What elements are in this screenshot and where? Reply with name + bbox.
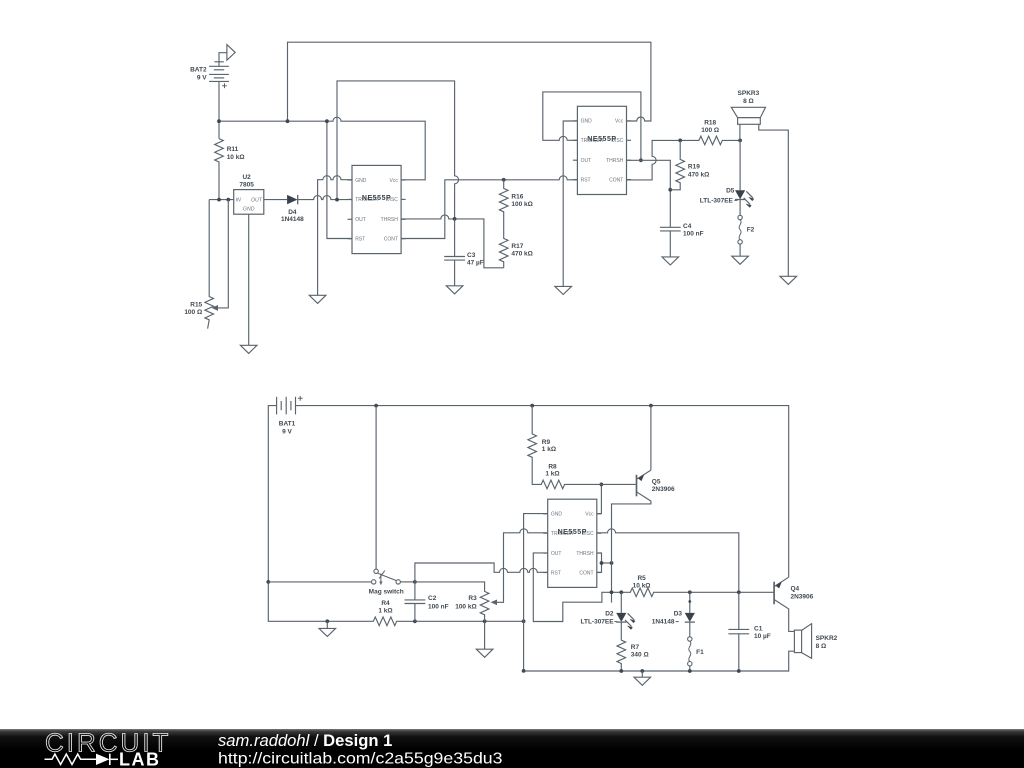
- svg-text:1 kΩ: 1 kΩ: [545, 471, 559, 478]
- svg-text:R18: R18: [704, 120, 716, 127]
- svg-text:R4: R4: [381, 600, 390, 607]
- svg-text:7805: 7805: [239, 181, 254, 188]
- svg-text:8 Ω: 8 Ω: [743, 98, 754, 105]
- svg-text:100 nF: 100 nF: [428, 604, 449, 611]
- svg-text:100 Ω: 100 Ω: [184, 309, 202, 316]
- svg-text:100 Ω: 100 Ω: [701, 127, 719, 134]
- svg-text:SPKR3: SPKR3: [738, 90, 760, 97]
- svg-text:R19: R19: [688, 164, 700, 171]
- svg-text:100 kΩ: 100 kΩ: [511, 201, 532, 208]
- svg-text:D5: D5: [726, 188, 735, 195]
- svg-text:1N4148: 1N4148: [652, 618, 675, 625]
- svg-text:NE555P: NE555P: [587, 136, 616, 143]
- svg-text:U2: U2: [242, 174, 251, 181]
- svg-text:9 V: 9 V: [282, 428, 292, 435]
- svg-text:C4: C4: [683, 223, 692, 230]
- svg-text:470 kΩ: 470 kΩ: [688, 171, 709, 178]
- svg-text:D2: D2: [605, 611, 614, 618]
- svg-text:100 kΩ: 100 kΩ: [455, 604, 476, 611]
- svg-text:C2: C2: [428, 595, 437, 602]
- svg-text:C1: C1: [754, 626, 763, 633]
- svg-text:http://circuitlab.com/c2a55g9e: http://circuitlab.com/c2a55g9e35du3: [218, 751, 503, 768]
- svg-text:470 kΩ: 470 kΩ: [511, 251, 532, 258]
- svg-text:CONT: CONT: [384, 237, 398, 243]
- svg-text:Vcc: Vcc: [615, 119, 624, 125]
- svg-text:GND: GND: [551, 512, 563, 518]
- svg-text:R16: R16: [511, 193, 523, 200]
- svg-text:9 V: 9 V: [197, 74, 207, 81]
- svg-text:F1: F1: [696, 649, 704, 656]
- svg-text:D4: D4: [288, 209, 297, 216]
- svg-text:THRSH: THRSH: [606, 158, 624, 164]
- svg-text:47 µF: 47 µF: [467, 260, 484, 267]
- svg-text:sam.raddohl / Design 1: sam.raddohl / Design 1: [218, 731, 392, 750]
- svg-text:NE555P: NE555P: [558, 529, 587, 536]
- svg-text:SPKR2: SPKR2: [816, 635, 838, 642]
- svg-text:RST: RST: [551, 570, 561, 576]
- svg-text:1 kΩ: 1 kΩ: [378, 608, 392, 615]
- svg-text:Q5: Q5: [652, 479, 661, 486]
- svg-text:Vcc: Vcc: [390, 178, 399, 184]
- svg-text:1 kΩ: 1 kΩ: [542, 446, 556, 453]
- svg-text:1N4148: 1N4148: [281, 216, 304, 223]
- svg-text:CONT: CONT: [579, 570, 593, 576]
- svg-text:10 µF: 10 µF: [754, 633, 771, 640]
- svg-text:10 kΩ: 10 kΩ: [227, 154, 245, 161]
- svg-text:GND: GND: [243, 207, 255, 213]
- svg-text:2N3906: 2N3906: [652, 486, 675, 493]
- svg-text:OUT: OUT: [551, 551, 562, 557]
- svg-text:THRSH: THRSH: [576, 551, 594, 557]
- svg-text:Mag switch: Mag switch: [369, 589, 404, 596]
- svg-text:LAB: LAB: [119, 750, 161, 768]
- svg-text:OUT: OUT: [251, 197, 263, 203]
- svg-text:GND: GND: [581, 119, 593, 125]
- svg-text:R11: R11: [227, 146, 239, 153]
- svg-text:R3: R3: [468, 595, 477, 602]
- svg-text:NE555P: NE555P: [362, 195, 391, 202]
- svg-text:LTL-307EE: LTL-307EE: [700, 198, 734, 205]
- svg-text:Vcc: Vcc: [585, 512, 594, 518]
- svg-text:F2: F2: [747, 226, 755, 233]
- svg-text:340 Ω: 340 Ω: [631, 651, 649, 658]
- svg-text:2N3906: 2N3906: [791, 594, 814, 601]
- svg-text:100 nF: 100 nF: [683, 231, 704, 238]
- svg-text:OUT: OUT: [581, 158, 592, 164]
- svg-text:C3: C3: [467, 252, 476, 259]
- svg-text:R5: R5: [637, 575, 646, 582]
- svg-text:8 Ω: 8 Ω: [816, 643, 827, 650]
- svg-text:GND: GND: [355, 178, 367, 184]
- svg-text:R9: R9: [542, 439, 551, 446]
- svg-text:R8: R8: [548, 464, 557, 471]
- svg-text:BAT1: BAT1: [279, 421, 296, 428]
- svg-text:THRSH: THRSH: [381, 217, 399, 223]
- svg-text:R17: R17: [511, 243, 523, 250]
- svg-text:10 kΩ: 10 kΩ: [633, 583, 651, 590]
- svg-text:RST: RST: [355, 237, 365, 243]
- svg-text:RST: RST: [581, 177, 591, 183]
- svg-text:OUT: OUT: [355, 217, 366, 223]
- svg-text:Q4: Q4: [791, 586, 800, 593]
- svg-text:LTL-307EE: LTL-307EE: [580, 618, 614, 625]
- svg-text:BAT2: BAT2: [190, 67, 207, 74]
- svg-text:R7: R7: [631, 644, 640, 651]
- svg-text:IN: IN: [236, 197, 241, 203]
- svg-text:CONT: CONT: [609, 177, 623, 183]
- svg-text:R15: R15: [190, 302, 202, 309]
- svg-text:D3: D3: [674, 611, 683, 618]
